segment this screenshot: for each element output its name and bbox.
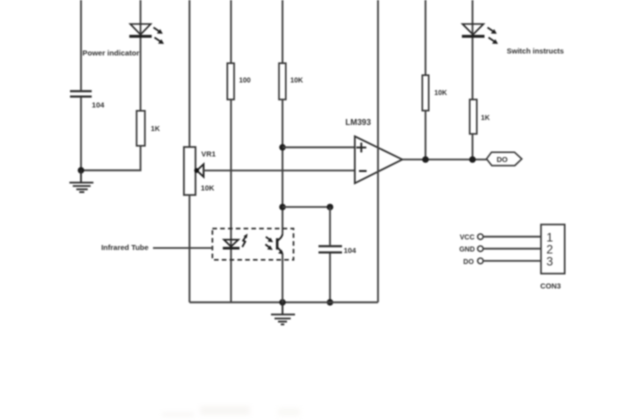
- wire VR1 bottom to bottom rail: [189, 195, 191, 302]
- svg-text:1K: 1K: [481, 115, 490, 122]
- wire R3 bottom through IR LED to bottom rail: [230, 100, 232, 303]
- svg-text:GND: GND: [459, 247, 475, 254]
- pin minus symbol: [359, 170, 367, 172]
- svg-text:DO: DO: [497, 155, 508, 164]
- resistor R2 1K (power LED): [137, 111, 145, 146]
- node C2 bottom junction: [327, 299, 334, 306]
- wire R2 bottom to ground node: [81, 146, 141, 171]
- wire op-amp output to DO flag: [402, 159, 486, 161]
- wire R5 bottom to output node: [425, 111, 427, 160]
- wire mid vertical rail: [377, 0, 379, 302]
- svg-text:3: 3: [546, 254, 553, 268]
- svg-text:DO: DO: [463, 259, 474, 266]
- svg-text:Power indicator: Power indicator: [82, 48, 139, 57]
- pin circle GND: [478, 246, 484, 252]
- svg-text:104: 104: [92, 101, 105, 110]
- node ground junction: [78, 167, 85, 174]
- transistor Q1 photo transistor: [265, 234, 283, 255]
- connector CON3 body: [541, 225, 565, 274]
- wire VCC lead of R3: [230, 0, 232, 63]
- wire VCC lead of R5: [425, 0, 427, 75]
- dashed box infrared tube: [212, 229, 293, 260]
- wire bottom rail: [190, 301, 379, 303]
- faint scan smudges bottom: [162, 406, 300, 417]
- capacitor C1 104: [70, 91, 92, 96]
- svg-text:Infrared Tube: Infrared Tube: [101, 243, 148, 252]
- svg-text:Switch instructs: Switch instructs: [507, 47, 564, 56]
- svg-text:100: 100: [239, 77, 251, 84]
- wire R4 bottom to phototransistor collector: [282, 100, 284, 234]
- svg-text:VR1: VR1: [201, 150, 215, 159]
- resistor R4 10K: [279, 63, 286, 99]
- node plus input junction: [279, 144, 286, 151]
- op-amp U1 LM393: [355, 136, 403, 183]
- svg-text:VCC: VCC: [460, 235, 475, 242]
- svg-text:104: 104: [344, 246, 357, 255]
- wire R6 bottom to output node: [472, 134, 474, 160]
- wire VCC lead of power LED D1: [140, 0, 142, 111]
- resistor R6 1K: [470, 100, 477, 134]
- LED D2 switch indicator: [462, 24, 498, 44]
- svg-text:10K: 10K: [434, 90, 447, 97]
- port flag DO: [487, 152, 522, 165]
- wire VCC lead of C1: [80, 0, 82, 90]
- wire minus input from VR1 wiper to op-amp: [203, 170, 355, 172]
- wire C2 bottom lead: [329, 253, 331, 302]
- wire phototransistor emitter to bottom rail: [282, 254, 284, 302]
- wire VCC lead of VR1: [189, 0, 191, 147]
- wire GND pin to CON3: [484, 248, 541, 250]
- wire C2 top lead: [329, 207, 331, 245]
- svg-text:CON3: CON3: [540, 282, 561, 291]
- pin circle DO: [478, 258, 484, 264]
- svg-text:10K: 10K: [201, 184, 215, 193]
- node ground junction bottom: [279, 299, 286, 306]
- resistor R3 100: [227, 63, 234, 99]
- LED D1 power indicator: [129, 24, 164, 44]
- LED D3 infrared emitter: [223, 234, 248, 249]
- wire VCC lead of R4: [282, 0, 284, 63]
- resistor R5 10K: [422, 75, 428, 110]
- node output junction R6: [469, 156, 476, 163]
- svg-text:1K: 1K: [151, 124, 161, 133]
- wire plus input to op-amp: [283, 146, 355, 148]
- svg-text:10K: 10K: [290, 77, 303, 84]
- wire VCC lead of switch LED D2: [472, 0, 474, 100]
- ground symbol left: [69, 170, 93, 192]
- pin circle VCC: [478, 234, 484, 240]
- capacitor C2 104: [319, 246, 343, 252]
- potentiometer VR1 10K: [184, 147, 196, 195]
- svg-text:LM393: LM393: [345, 118, 371, 127]
- wire C1 bottom to ground node: [80, 98, 82, 171]
- wire VCC pin to CON3: [484, 236, 541, 238]
- wire DO pin to CON3: [484, 260, 541, 262]
- wire junction to capacitor C2: [283, 206, 331, 208]
- node output junction R5: [422, 156, 429, 163]
- node capacitor C2 top junction: [327, 204, 334, 211]
- node collector to capacitor junction: [279, 204, 286, 211]
- ground symbol bottom: [271, 302, 295, 324]
- pin plus symbol: [356, 143, 366, 153]
- wiper arrow of VR1: [194, 164, 203, 177]
- wire leader line to dashed box: [153, 247, 212, 249]
